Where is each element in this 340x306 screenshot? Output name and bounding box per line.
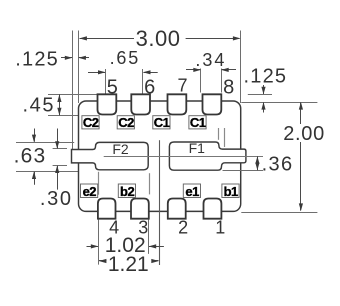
svg-text:.34: .34 (195, 50, 226, 70)
pin 2 pad (168, 199, 186, 219)
svg-text:e2: e2 (83, 184, 97, 199)
svg-text:3.00: 3.00 (136, 26, 181, 51)
dimension 3.00 body width (79, 26, 240, 51)
svg-text:F2: F2 (112, 141, 129, 157)
pin 1 pad (204, 199, 222, 219)
svg-text:1.21: 1.21 (108, 253, 149, 276)
svg-text:5: 5 (107, 77, 118, 99)
pin 4 pad (98, 199, 116, 219)
element F1 with right tab (169, 142, 246, 170)
svg-text:.36: .36 (262, 154, 294, 176)
svg-text:8: 8 (223, 77, 234, 99)
pin 5 pad (98, 94, 117, 114)
dimension .125 right (pad protrusion) (241, 65, 317, 112)
pin 7 pad (168, 94, 187, 114)
label e1 pin2 (183, 184, 200, 199)
label C1 pin7 (153, 115, 170, 130)
extension line: body left edge reference (78, 31, 80, 104)
svg-text:6: 6 (144, 77, 155, 99)
svg-text:C1: C1 (154, 115, 170, 130)
label C2 pin5 (82, 115, 99, 130)
extension line: body bottom edge (right) (241, 212, 317, 214)
neck e2 (98, 172, 100, 195)
svg-text:7: 7 (177, 76, 187, 96)
center line (159, 140, 161, 265)
svg-text:2.00: 2.00 (283, 123, 325, 145)
dimension 2.00 body height (283, 102, 325, 211)
pin number 3 (138, 218, 148, 238)
pin number 1 (215, 218, 225, 238)
dimension 1.21 (99, 253, 159, 276)
pin number 5 (107, 77, 118, 99)
pin 6 pad (131, 94, 150, 114)
extension line: pad4 left edge (bottom) (98, 220, 100, 265)
text F2 (112, 141, 129, 157)
neck b2 (149, 173, 151, 194)
svg-text:.125: .125 (244, 65, 288, 87)
dimension .34 pad width (186, 50, 236, 93)
svg-text:e1: e1 (185, 184, 199, 199)
label C2 pin6 (117, 115, 134, 130)
svg-text:.63: .63 (14, 145, 47, 168)
text F1 (189, 140, 206, 156)
svg-text:C2: C2 (83, 115, 99, 130)
svg-text:1: 1 (215, 218, 225, 238)
dimension .45 pad height (left) (22, 94, 97, 116)
label e2 pin4 (81, 184, 98, 199)
pin 3 pad (131, 199, 149, 219)
pin number 7 (177, 76, 187, 96)
dimension .63 element height (left) (14, 129, 79, 185)
package body (79, 101, 241, 211)
dimension .36 (right tab to element bottom) (223, 154, 294, 176)
neck C1 long (224, 128, 226, 147)
svg-text:.30: .30 (40, 188, 73, 210)
pin number 2 (178, 218, 188, 238)
svg-text:.45: .45 (22, 94, 55, 116)
label b1 pin1 (222, 184, 239, 199)
pin number 4 (109, 218, 119, 238)
pin 8 pad (203, 94, 222, 114)
dimension 1.02 (87, 234, 164, 257)
pin number 6 (144, 77, 155, 99)
svg-text:.65: .65 (110, 48, 140, 68)
svg-text:b1: b1 (224, 184, 238, 199)
pin number 8 (223, 77, 234, 99)
svg-text:F1: F1 (189, 140, 206, 156)
neck C1 short (218, 128, 220, 140)
dimension .30 tab thickness (left) (40, 129, 73, 210)
svg-text:b2: b2 (120, 184, 134, 199)
extension line: body right edge reference (240, 31, 242, 104)
svg-text:C1: C1 (190, 115, 206, 130)
label C1 pin8 (189, 115, 206, 130)
dimension .65 pin pitch (88, 48, 158, 94)
dimension .125 left (tab protrusion) (15, 49, 89, 71)
element F2 with left tab (72, 142, 149, 169)
extension line: pad3 right edge (bottom) (148, 220, 150, 254)
svg-text:C2: C2 (118, 115, 134, 130)
svg-text:.125: .125 (15, 49, 59, 71)
element trace line (104, 156, 263, 158)
svg-text:2: 2 (178, 218, 188, 238)
extension line: tab-end reference (left) (72, 31, 74, 150)
label b2 pin3 (118, 184, 135, 199)
